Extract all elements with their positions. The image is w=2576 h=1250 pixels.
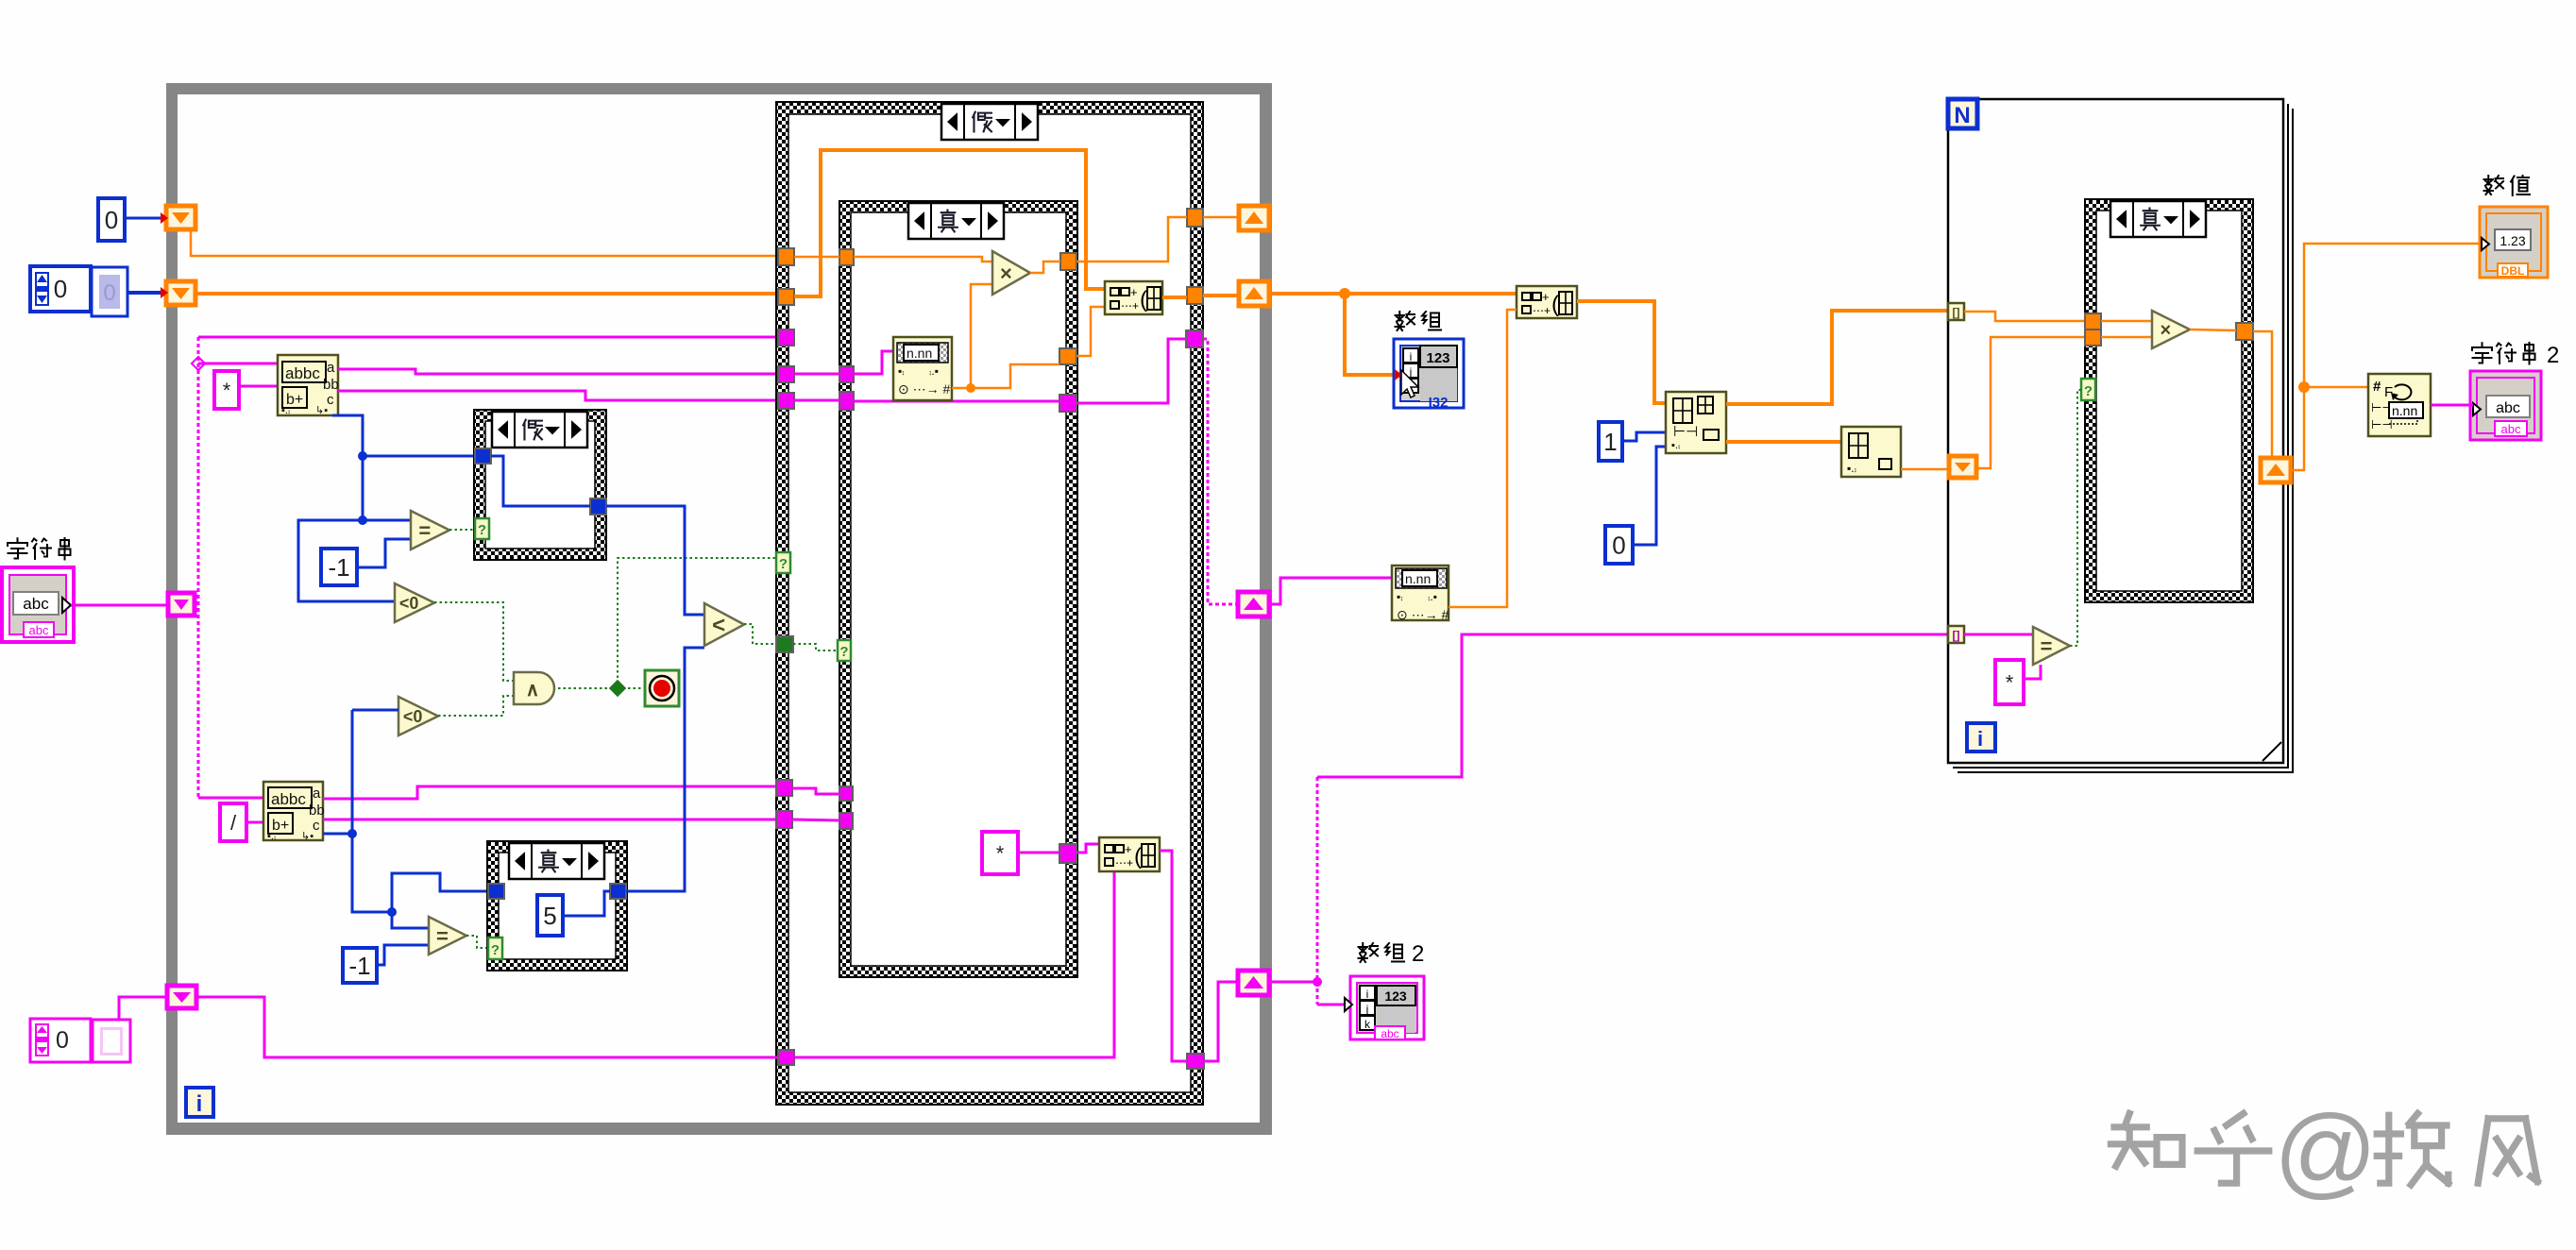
- wire select out to green tunnel: [744, 624, 776, 644]
- svg-text:n.nn: n.nn: [1405, 571, 1431, 586]
- wire NN1 to D-R2: [971, 364, 1059, 388]
- svg-text:↳▪: ↳▪: [301, 831, 314, 842]
- svg-text:<0: <0: [403, 707, 423, 726]
- constant -1 (b): [343, 948, 377, 983]
- svg-text:5: 5: [543, 902, 556, 930]
- wire 0 to SR1: [125, 217, 166, 220]
- svg-text:/: /: [230, 811, 237, 835]
- blue vertical to lt0-2: [352, 709, 398, 712]
- wire down to less-than-0 1: [298, 520, 395, 601]
- index array node 2: [1841, 427, 1901, 477]
- shift register SR2 right: [1239, 281, 1269, 306]
- red input arrow SR1: [161, 212, 168, 224]
- wire junction to array indicator: [1345, 294, 1396, 375]
- wire equals2 to case B selector: [466, 936, 488, 948]
- wire match1 out a: [338, 369, 778, 374]
- wire D-L1 to multiply: [854, 257, 992, 262]
- junction dot 4: [387, 907, 397, 917]
- svg-text:k: k: [1364, 1018, 1371, 1031]
- wire BA3 out to C-R4: [1160, 851, 1187, 1061]
- stop button: [645, 670, 679, 706]
- label 数组: [1396, 312, 1442, 330]
- wire [] to case E: [1964, 312, 2085, 321]
- wire AND to junction: [558, 687, 618, 689]
- svg-text:N: N: [1954, 103, 1970, 128]
- case D selector tunnel ?: [838, 640, 851, 661]
- svg-text:+: +: [1542, 290, 1550, 304]
- wire match1 offset out (blue): [332, 415, 363, 520]
- for loop frame: [1948, 99, 2283, 763]
- tunnel C-L2 orange: [778, 289, 794, 305]
- tunnel C-L7 magenta: [776, 811, 792, 828]
- wire M1 out to D-R1: [1030, 262, 1060, 273]
- wire inside case A: [491, 456, 590, 506]
- junction diamond green: [610, 681, 626, 697]
- tunnel C-L6 magenta: [776, 780, 792, 796]
- svg-text:⊙ ⋯→ #: ⊙ ⋯→ #: [898, 381, 951, 397]
- svg-text:+: +: [1125, 842, 1132, 856]
- wire C-L6 to D-L4: [792, 788, 839, 794]
- wire C-R4 up to SR4 right: [1204, 982, 1238, 1061]
- wire to equals 1: [363, 519, 411, 522]
- wire junction to stop: [618, 687, 645, 689]
- wire D-R2 to build array lower: [1076, 307, 1105, 356]
- svg-text:2: 2: [1412, 941, 1424, 967]
- wire BA2 out to index node: [1577, 301, 1666, 403]
- svg-text:=: =: [2041, 634, 2053, 658]
- string indicator 字符串 2: [2470, 371, 2541, 440]
- tunnel C-L1 orange: [778, 248, 794, 265]
- svg-text:123: 123: [1426, 350, 1449, 366]
- array2 input arrow: [1345, 998, 1352, 1011]
- while loop border: [166, 83, 1272, 1135]
- shift register for loop SR left: [1949, 456, 1976, 478]
- svg-text:abc: abc: [1381, 1027, 1398, 1040]
- pink radix box 2: [93, 1020, 130, 1062]
- numeric indicator 数值: [2480, 207, 2548, 278]
- red input arrow SR2: [161, 287, 168, 298]
- svg-text:c: c: [327, 392, 334, 408]
- svg-text:▪.⨾: ▪.⨾: [281, 405, 290, 416]
- constant / (match pattern 2 regex): [220, 803, 246, 841]
- tunnel case B left (blue): [488, 884, 504, 899]
- svg-text:[]: []: [1953, 306, 1960, 319]
- svg-text:*: *: [996, 841, 1005, 865]
- wire index out to for loop tunnel: [1726, 311, 1948, 404]
- svg-text:i: i: [1366, 988, 1369, 1001]
- wire SR4 left bottom string: [196, 997, 778, 1057]
- svg-text:DBL: DBL: [2501, 264, 2525, 278]
- wire trunk to match2: [198, 797, 263, 800]
- build array node 1: [1105, 281, 1162, 314]
- shift register for loop SR right: [2261, 458, 2291, 482]
- wire junction up to case C selector: [618, 558, 776, 688]
- wire SR2R to junction/build array 2: [1269, 292, 1517, 296]
- wire lt0-2 to AND: [438, 696, 514, 716]
- svg-text:⨾.▪: ⨾.▪: [929, 364, 939, 378]
- svg-text:+: +: [1130, 285, 1138, 299]
- case A selector tunnel ?: [475, 518, 489, 539]
- tunnel D-R3 magenta: [1059, 395, 1076, 412]
- wire D-R4 to build array 3: [1076, 844, 1099, 853]
- svg-text:*: *: [2006, 670, 2014, 694]
- shift register SR4 right: [1238, 971, 1269, 995]
- tunnel C green boolean tunnel: [776, 636, 793, 652]
- svg-text:▪⨾: ▪⨾: [1397, 590, 1403, 603]
- tunnel case A right (blue): [590, 498, 606, 515]
- constant * (compare string): [982, 832, 1018, 874]
- svg-text:c: c: [313, 818, 320, 834]
- index/reshape array node: [1666, 392, 1726, 453]
- while loop iteration terminal i: [186, 1088, 213, 1117]
- svg-text:⋯+: ⋯+: [1115, 856, 1133, 870]
- svg-text:?: ?: [839, 644, 848, 660]
- shift register SR3 left (string): [168, 593, 195, 616]
- svg-text:-1: -1: [328, 553, 349, 582]
- svg-text:?: ?: [491, 942, 500, 958]
- case structure E (真 true frame in for loop): [2085, 199, 2253, 602]
- wire index out lower: [1726, 440, 1841, 444]
- wire string to array 2: [1317, 1004, 1350, 1006]
- constant * (for loop compare): [1995, 660, 2024, 704]
- svg-text:↳▪: ↳▪: [315, 405, 328, 416]
- equals node 1: [411, 511, 449, 549]
- svg-text:bb: bb: [309, 802, 325, 819]
- svg-text:▪.⨾: ▪.⨾: [267, 831, 276, 842]
- select/max node: [704, 603, 744, 646]
- wire match2 out a: [323, 786, 776, 799]
- wire C-R2 to SR2 right: [1203, 294, 1239, 297]
- wire D-R3 to C-R3: [1076, 339, 1186, 403]
- svg-text:(: (: [1134, 844, 1142, 870]
- wire match1 out c: [338, 391, 778, 400]
- wire string to for loop: [1317, 634, 1948, 777]
- wire M2 out to E-R1: [2190, 329, 2236, 330]
- svg-text:▪.⨾: ▪.⨾: [1847, 462, 1856, 475]
- svg-text:∧: ∧: [526, 680, 540, 701]
- string control 字符串: [2, 567, 74, 642]
- svg-text:<: <: [712, 613, 725, 638]
- tunnel C-L3 magenta: [778, 329, 794, 346]
- string-to-number node 2: [1392, 566, 1449, 622]
- build array node 3: [1099, 837, 1160, 871]
- multiply node M1: [992, 251, 1030, 295]
- svg-text:?: ?: [478, 522, 486, 538]
- tunnel C-L5 magenta: [778, 393, 794, 409]
- wire D-L2 to string-to-number: [854, 351, 893, 374]
- case structure D (inner 真 true frame): [839, 201, 1077, 977]
- svg-text:0: 0: [54, 275, 67, 303]
- shift register SR3 right: [1238, 592, 1269, 617]
- number-to-fractional-string node: [2368, 374, 2431, 436]
- label 数值: [2484, 176, 2531, 195]
- wire D-R1 up to C-R1: [1076, 217, 1187, 262]
- wire equals3 to case E selector: [2070, 390, 2081, 646]
- wire -1b to equals2: [377, 945, 429, 965]
- label 字符串 2: [2472, 343, 2559, 368]
- shift register SR1 right: [1239, 206, 1269, 230]
- blue vertical segment: [352, 710, 392, 912]
- wire E-R1 to for SR right: [2253, 331, 2272, 458]
- AND gate: [514, 672, 554, 704]
- array indicator 数组: [1394, 339, 1464, 411]
- wire NN1 out junction: [952, 387, 971, 390]
- string wire vertical trunk: [197, 337, 200, 798]
- array indicator 数组 2: [1350, 976, 1424, 1040]
- wire NN1 to multiply lower: [971, 284, 992, 388]
- tunnel C-L8 magenta bottom: [778, 1050, 794, 1065]
- less-than-0 node 1: [395, 583, 434, 622]
- tunnel D-L2 magenta: [839, 366, 854, 382]
- svg-text:[]: []: [1953, 629, 1960, 642]
- wire 5 to case B out: [563, 891, 610, 916]
- wire 1 to index node: [1622, 432, 1666, 441]
- wire for SR to case E: [1976, 337, 2085, 468]
- svg-text:?: ?: [779, 556, 788, 572]
- for loop count terminal N: [1948, 99, 1977, 128]
- case structure A (假 false frame): [474, 410, 606, 560]
- case C selector tunnel ?: [776, 552, 790, 573]
- wire number-to-string out: [2431, 404, 2473, 407]
- shift register SR1 left (DBL): [166, 206, 195, 229]
- svg-text:abc: abc: [29, 623, 49, 637]
- match pattern node 2: [263, 782, 325, 842]
- svg-text:n.nn: n.nn: [2392, 403, 2417, 418]
- svg-text:(: (: [1140, 287, 1147, 312]
- svg-text:i: i: [1410, 350, 1413, 363]
- numeric control 2 (pink): [30, 1019, 91, 1062]
- svg-text:×: ×: [1000, 262, 1012, 285]
- tunnel D-L1 orange: [839, 249, 854, 265]
- case structure B (真 true frame): [487, 841, 627, 971]
- tunnel C-R2 orange: [1187, 287, 1203, 304]
- wire match2 offset out (blue): [323, 833, 352, 836]
- svg-text:<0: <0: [399, 594, 419, 613]
- tunnel D-R4 magenta: [1059, 844, 1076, 863]
- svg-text:123: 123: [1384, 988, 1407, 1004]
- svg-text:=: =: [418, 518, 431, 542]
- svg-text:0: 0: [56, 1027, 69, 1054]
- svg-text:abc: abc: [23, 595, 49, 613]
- svg-text:?: ?: [2084, 383, 2093, 399]
- wire numeric control to SR2: [127, 291, 166, 295]
- wire 0 to index node: [1633, 447, 1666, 545]
- constant 5: [537, 895, 563, 936]
- wire string vertical branch: [1316, 777, 1319, 1005]
- junction dot: [358, 451, 367, 461]
- svg-text:⋯+: ⋯+: [1533, 304, 1551, 317]
- wire case B out up to select: [626, 648, 704, 891]
- svg-text:I32: I32: [1429, 395, 1449, 411]
- svg-text:(: (: [1551, 292, 1559, 317]
- tunnel C-R1 orange: [1187, 209, 1203, 227]
- svg-text:abc: abc: [2501, 422, 2521, 436]
- wire C-L5 to D-L3: [794, 399, 839, 402]
- svg-text:×: ×: [2161, 320, 2172, 341]
- wire C-L4 to D-L2: [794, 373, 839, 376]
- svg-text:=: =: [436, 924, 449, 948]
- shift register SR4 left (string): [167, 986, 196, 1008]
- tunnel C-L4 magenta: [778, 366, 794, 382]
- tunnel D-R2 orange: [1059, 348, 1076, 364]
- svg-text:0: 0: [1612, 531, 1625, 559]
- build array node 2: [1517, 286, 1577, 318]
- tunnel D-L3 magenta: [839, 392, 854, 410]
- svg-text:bb: bb: [323, 377, 339, 393]
- wire for SR right up: [2291, 244, 2481, 470]
- wire NN2 up to build array 2: [1449, 310, 1517, 607]
- wire match2 out c: [323, 819, 776, 821]
- junction dot array: [1339, 288, 1350, 299]
- multiply node M2: [2152, 311, 2190, 348]
- svg-text:abbc: abbc: [285, 364, 320, 382]
- for loop auto-index tunnel (string): [1948, 626, 1964, 643]
- junction dot out: [2298, 381, 2310, 393]
- svg-text:1.23: 1.23: [2500, 233, 2525, 248]
- case structure C (big 假 false frame): [776, 102, 1203, 1105]
- tunnel C-R4 magenta bottom: [1187, 1054, 1204, 1069]
- wire * to D-R4: [1018, 852, 1059, 854]
- svg-text:⨾.▪: ⨾.▪: [1428, 590, 1437, 603]
- wire lt0-1 to AND: [434, 602, 514, 681]
- tunnel E-L2 orange: [2085, 329, 2101, 346]
- svg-text:j: j: [1409, 365, 1413, 379]
- svg-text:▪.⨾: ▪.⨾: [1671, 440, 1680, 451]
- svg-text:i: i: [196, 1091, 203, 1117]
- numeric control (I32): [30, 266, 91, 312]
- numeric control radix box: [92, 267, 127, 316]
- shift register SR2 left (DBL array): [166, 281, 195, 305]
- constant 0 (index): [1605, 526, 1633, 564]
- wire SR1 scalar DBL: [191, 229, 778, 256]
- svg-text:-1: -1: [348, 952, 370, 980]
- svg-text:j: j: [1365, 1003, 1369, 1016]
- svg-text:i: i: [1977, 727, 1983, 751]
- junction dot string: [1313, 977, 1322, 987]
- label 数组 2: [1359, 941, 1425, 967]
- constant * (match pattern 1 regex): [214, 371, 239, 409]
- svg-text:*: *: [223, 379, 231, 402]
- wire bottom string through case C: [794, 871, 1114, 1057]
- wire * to match1: [239, 385, 278, 388]
- constant 0 (to numeric SR): [98, 198, 125, 241]
- equals node 3: [2033, 627, 2070, 665]
- svg-text:0: 0: [103, 280, 115, 306]
- for loop auto-index tunnel (DBL): [1948, 303, 1964, 320]
- wire / to match2: [246, 821, 263, 824]
- junction dot 3: [347, 829, 357, 838]
- for loop iteration terminal i: [1967, 723, 1995, 752]
- tunnel E-L1 orange: [2085, 313, 2101, 329]
- svg-text:⋯+: ⋯+: [1121, 299, 1139, 312]
- wire junction to number-to-string: [2304, 386, 2368, 389]
- wire green tunnel to case D selector: [793, 644, 838, 650]
- wire * to equals 3: [2024, 665, 2041, 679]
- wire D-L3 to D-R3: [854, 400, 1059, 403]
- svg-text:▪⨾: ▪⨾: [898, 364, 905, 378]
- svg-text:@: @: [2274, 1093, 2378, 1208]
- wire C-L1 to multiply: [794, 256, 839, 259]
- wire to for loop left SR: [1901, 468, 1949, 471]
- match pattern node 1: [278, 355, 339, 416]
- svg-text:#: #: [2373, 379, 2381, 395]
- case B selector tunnel ?: [488, 937, 502, 959]
- svg-text:⊙ ⋯→ #: ⊙ ⋯→ #: [1397, 607, 1449, 622]
- junction dot 2: [358, 515, 367, 525]
- tunnel case A left (blue): [475, 448, 491, 464]
- wire to case A tunnel: [363, 455, 475, 458]
- red coercion arrow array: [1395, 369, 1402, 380]
- wire case A out: [606, 506, 704, 615]
- svg-text:abc: abc: [2496, 400, 2520, 416]
- wire -1a to equals1: [357, 539, 411, 567]
- tunnel D-R1 orange: [1060, 253, 1076, 270]
- tunnel C-R3 magenta: [1186, 330, 1203, 347]
- junction dot NN1: [966, 383, 975, 393]
- wire to equals 2: [392, 912, 429, 928]
- wire to case B tunnel: [392, 873, 488, 912]
- mouse cursor: [1401, 370, 1418, 397]
- less-than-0 node 2: [398, 697, 438, 735]
- svg-text:0: 0: [105, 206, 118, 234]
- wire string [] to equals 3: [1964, 633, 2033, 636]
- wire BA1 out to C-R2: [1162, 296, 1187, 299]
- svg-text:a: a: [313, 785, 321, 802]
- wire control2 to SR4: [119, 997, 167, 1019]
- junction diamond: [192, 357, 205, 370]
- svg-text:abbc: abbc: [271, 790, 306, 808]
- svg-text:n.nn: n.nn: [907, 346, 932, 361]
- for loop dog ear: [2262, 742, 2281, 761]
- watermark 知乎 @挽风: [2110, 1093, 2537, 1208]
- svg-text:F: F: [2384, 384, 2393, 400]
- equals node 2: [429, 917, 466, 954]
- tunnel D-L5 magenta: [839, 813, 853, 829]
- constant 1: [1599, 422, 1622, 461]
- for loop shadow frames: [1953, 104, 2293, 772]
- svg-text:1: 1: [1603, 428, 1617, 456]
- svg-text:2: 2: [2547, 343, 2559, 368]
- wire trunk to match1: [198, 363, 278, 365]
- wire array up-over to build array 1: [794, 150, 1105, 296]
- case E selector tunnel ?: [2081, 379, 2095, 400]
- tunnel case B right (blue): [610, 884, 626, 899]
- string-to-number node (n.nn -> #): [893, 337, 952, 400]
- wire C-L7 to D-L5: [792, 819, 839, 820]
- svg-text:a: a: [327, 360, 335, 376]
- constant -1 (a): [321, 549, 357, 585]
- wire E-L2 to multiply 2: [2101, 336, 2152, 339]
- wire SR3R to string-to-number 2: [1269, 578, 1392, 604]
- tunnel E-R1 orange: [2236, 323, 2253, 340]
- wire SR4R to junction: [1269, 981, 1317, 984]
- svg-text:⊢⊣: ⊢⊣: [1673, 424, 1698, 440]
- label 字符串: [8, 538, 71, 560]
- wire equals1 to case A selector: [449, 529, 475, 531]
- wire C-R3 down to SR3 right: [1203, 339, 1238, 604]
- wire E-L1 to multiply 2: [2101, 320, 2152, 323]
- tunnel D-L4 magenta: [839, 786, 853, 801]
- wire SR2 DBL array: [195, 292, 778, 296]
- wire string control to SR3: [71, 604, 168, 607]
- wire trunk top to case tunnel: [198, 336, 778, 339]
- wire C-R1 to SR1 right: [1203, 216, 1239, 219]
